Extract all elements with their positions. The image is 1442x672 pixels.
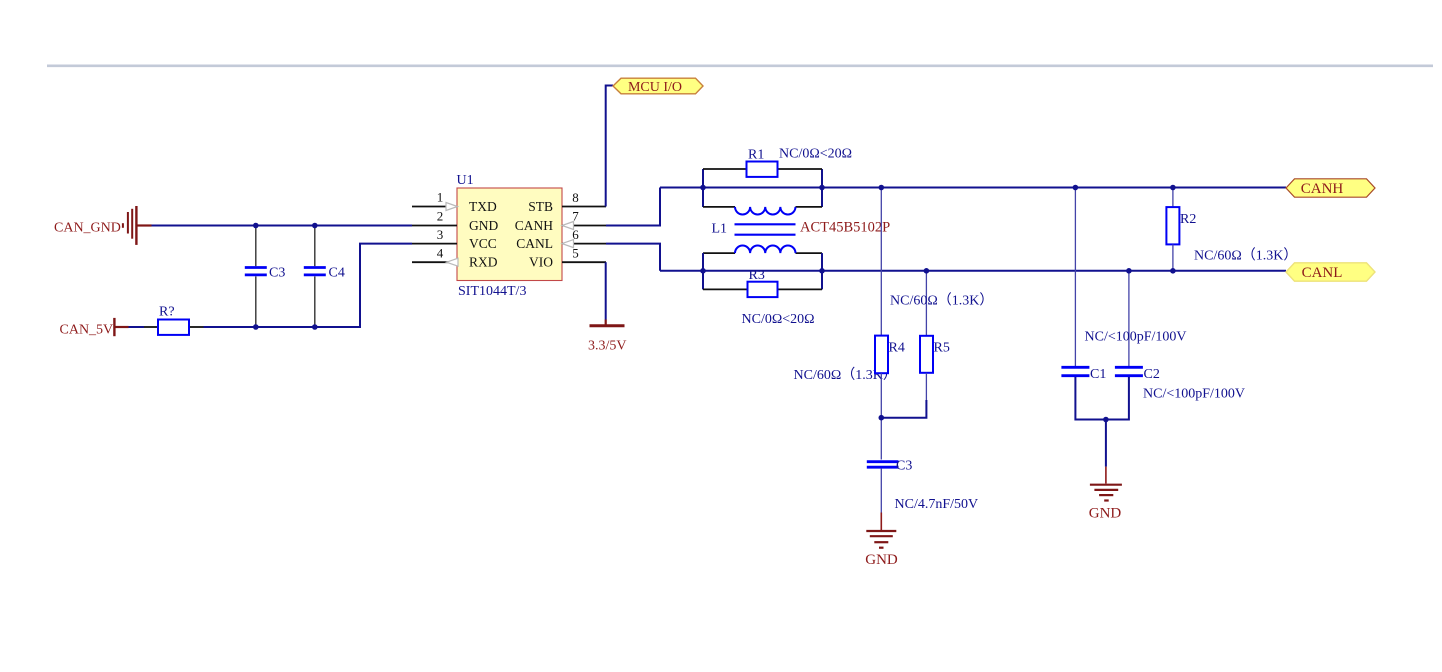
wire CANL trunk bbox=[660, 270, 1286, 272]
port CAN_5V bar bbox=[113, 318, 115, 336]
wire CANL to C2 bbox=[1128, 271, 1130, 366]
resistor R? leads bbox=[144, 326, 158, 328]
wire CAN_5V red stub bbox=[114, 326, 128, 328]
svg-text:CANL: CANL bbox=[1302, 265, 1343, 281]
ground GND (left) bbox=[866, 531, 896, 548]
svg-text:TXD: TXD bbox=[469, 199, 497, 214]
wire left vertical of R1/L1 parallel block bbox=[702, 169, 704, 207]
svg-text:3.3/5V: 3.3/5V bbox=[588, 339, 627, 354]
pin 4 RXD bbox=[412, 261, 457, 263]
resistor R? body bbox=[158, 320, 189, 335]
svg-text:GND: GND bbox=[865, 552, 898, 568]
resistor R2 body bbox=[1166, 207, 1179, 244]
svg-text:C3: C3 bbox=[269, 266, 285, 281]
wire CANL to R5 bbox=[925, 271, 927, 336]
svg-text:L1: L1 bbox=[712, 222, 728, 237]
resistor R2 lead upper bbox=[1172, 188, 1174, 208]
svg-text:CANL: CANL bbox=[516, 236, 553, 251]
wire right vertical of L1/R3 parallel block bbox=[821, 253, 823, 289]
capacitor C3 (left) lead lower bbox=[255, 276, 257, 327]
capacitor C1 plates bbox=[1061, 366, 1089, 369]
resistor R5 body bbox=[920, 336, 933, 373]
svg-text:1: 1 bbox=[437, 190, 444, 205]
pin 3 VCC bbox=[412, 243, 457, 245]
capacitor C4 lead lower bbox=[314, 276, 316, 327]
svg-text:NC/<100pF/100V: NC/<100pF/100V bbox=[1085, 330, 1187, 345]
inductor L1 bottom winding leads bbox=[703, 252, 735, 254]
wire to GND (right) bbox=[1105, 420, 1107, 467]
wire C3 to GND bbox=[880, 469, 882, 513]
inductor L1 bottom winding bbox=[735, 246, 795, 254]
svg-text:NC/60Ω（1.3K）: NC/60Ω（1.3K） bbox=[1194, 248, 1297, 264]
svg-text:MCU I/O: MCU I/O bbox=[628, 80, 682, 95]
pin 7 CANH bbox=[562, 225, 606, 227]
svg-text:2: 2 bbox=[437, 208, 444, 223]
junction dot R4/R5 bbox=[879, 415, 885, 421]
capacitor C3 (left) plates bbox=[245, 266, 267, 269]
ground symbol CAN_GND (earth bars) bbox=[123, 206, 152, 245]
inductor L1 top winding bbox=[735, 207, 795, 215]
capacitor C2 plates bbox=[1115, 366, 1143, 369]
wire CANH to R4 bbox=[880, 188, 882, 336]
pin 8 STB bbox=[562, 206, 606, 208]
capacitor C3 (left) lead upper bbox=[255, 226, 257, 267]
wire VIO down to 3.3/5V bbox=[605, 262, 607, 319]
wire R4 to C3 bbox=[880, 373, 882, 459]
svg-text:C1: C1 bbox=[1090, 367, 1106, 382]
svg-text:STB: STB bbox=[528, 199, 553, 214]
wire CAN_5V to R? bbox=[129, 326, 145, 328]
resistor R1 leads bbox=[703, 168, 747, 170]
svg-text:R?: R? bbox=[159, 305, 175, 320]
svg-text:NC/0Ω<20Ω: NC/0Ω<20Ω bbox=[742, 312, 815, 327]
ground GND (right) bbox=[1090, 485, 1122, 501]
wire left vertical of L1/R3 parallel block bbox=[702, 253, 704, 289]
svg-text:CANH: CANH bbox=[1301, 181, 1344, 197]
op-amp U1 body (IC SIT1044T/3) bbox=[457, 188, 562, 281]
svg-text:3: 3 bbox=[437, 227, 444, 242]
svg-text:R3: R3 bbox=[749, 268, 765, 283]
svg-text:U1: U1 bbox=[457, 173, 474, 188]
wire CAN_GND to pin2 bbox=[152, 225, 413, 227]
svg-text:VCC: VCC bbox=[469, 236, 497, 251]
wire right vertical of R1/L1 parallel block bbox=[821, 169, 823, 207]
svg-text:SIT1044T/3: SIT1044T/3 bbox=[458, 284, 526, 299]
wire R5 down and left to node bbox=[925, 373, 927, 401]
svg-text:R5: R5 bbox=[934, 341, 950, 356]
svg-text:CAN_GND: CAN_GND bbox=[54, 221, 121, 236]
wire pin7 to CANH trunk bbox=[606, 188, 660, 226]
svg-text:NC/<100pF/100V: NC/<100pF/100V bbox=[1143, 387, 1245, 402]
inductor L1 core lines bbox=[735, 223, 796, 225]
junction dots on trunks bbox=[879, 185, 885, 191]
capacitor C4 lead upper bbox=[314, 226, 316, 267]
resistor R2 lead lower bbox=[1172, 244, 1174, 270]
wire STB up to MCU I/O bbox=[606, 86, 613, 207]
capacitor C4 plates bbox=[304, 266, 326, 269]
wire CANH to C1 bbox=[1074, 188, 1076, 367]
wire R? to VCC corner bbox=[204, 244, 413, 327]
svg-text:NC/60Ω（1.3K）: NC/60Ω（1.3K） bbox=[890, 293, 993, 309]
wire CANH trunk bbox=[660, 187, 1286, 189]
svg-text:R4: R4 bbox=[889, 341, 905, 356]
port flag CANL bbox=[1286, 263, 1375, 281]
port flag MCU I/O bbox=[613, 78, 703, 94]
pin 6 CANL bbox=[562, 243, 606, 245]
pin 2 GND bbox=[412, 225, 457, 227]
svg-text:NC/4.7nF/50V: NC/4.7nF/50V bbox=[895, 497, 979, 512]
inductor L1 top winding leads bbox=[703, 206, 735, 208]
svg-text:C4: C4 bbox=[329, 266, 345, 281]
svg-text:NC/0Ω<20Ω: NC/0Ω<20Ω bbox=[779, 147, 852, 162]
svg-text:VIO: VIO bbox=[529, 255, 553, 270]
svg-text:8: 8 bbox=[572, 190, 579, 205]
svg-text:GND: GND bbox=[1089, 506, 1122, 522]
wire pin6 to CANL trunk bbox=[606, 244, 660, 271]
svg-text:CANH: CANH bbox=[515, 218, 554, 233]
junction dots on parallel blocks bbox=[700, 185, 706, 191]
svg-text:R1: R1 bbox=[748, 148, 764, 163]
junction dot C1/C2 bbox=[1103, 417, 1109, 423]
resistor R3 leads bbox=[703, 288, 748, 290]
svg-text:CAN_5V: CAN_5V bbox=[60, 323, 114, 338]
svg-text:5: 5 bbox=[572, 245, 579, 260]
svg-text:RXD: RXD bbox=[469, 255, 498, 270]
pin 5 VIO bbox=[562, 261, 606, 263]
svg-text:GND: GND bbox=[469, 218, 498, 233]
capacitor C3 (bottom) plates bbox=[867, 460, 899, 463]
svg-text:4: 4 bbox=[437, 245, 444, 260]
port flag CANH bbox=[1286, 179, 1375, 197]
power symbol 3.3/5V bbox=[605, 320, 607, 326]
svg-text:ACT45B5102P: ACT45B5102P bbox=[800, 220, 890, 236]
resistor R1 body bbox=[747, 162, 778, 177]
wire C1/C2 bottom U bbox=[1075, 377, 1129, 420]
top divider line bbox=[47, 65, 1433, 68]
resistor R4 body bbox=[875, 336, 888, 374]
resistor R3 body bbox=[748, 282, 778, 297]
svg-text:R2: R2 bbox=[1180, 212, 1196, 227]
junction dots left bbox=[253, 223, 259, 229]
svg-text:C2: C2 bbox=[1144, 367, 1160, 382]
pin 1 TXD bbox=[412, 206, 457, 208]
svg-text:C3: C3 bbox=[896, 459, 912, 474]
